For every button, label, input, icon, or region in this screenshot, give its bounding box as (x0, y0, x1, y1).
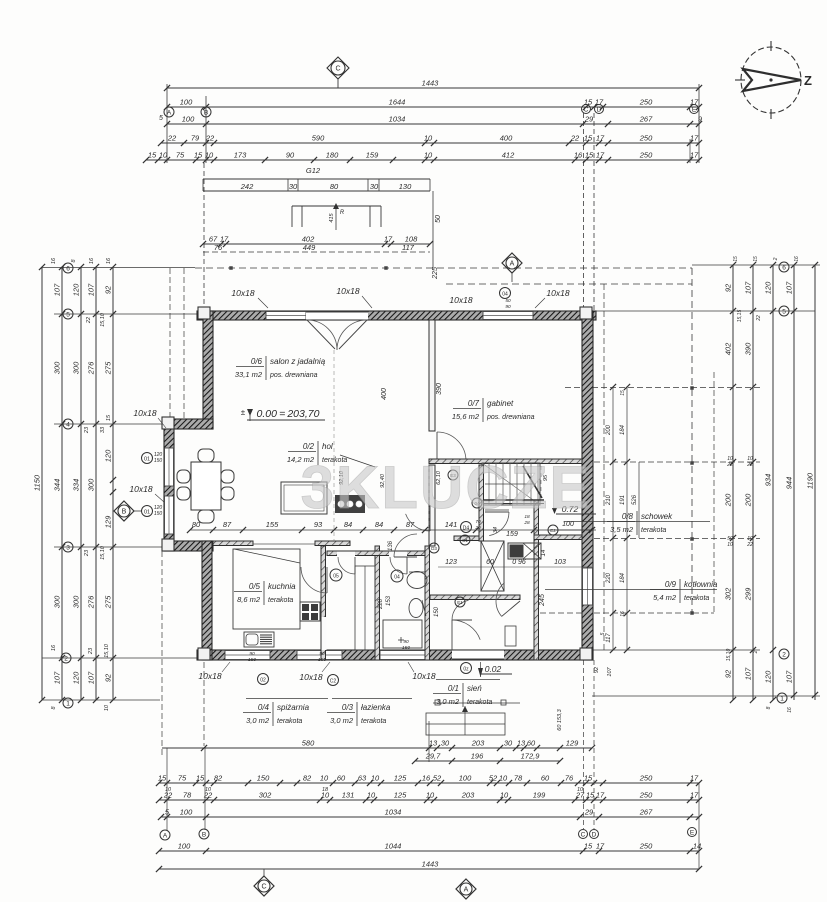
svg-text:0 96: 0 96 (512, 559, 526, 566)
svg-text:944: 944 (785, 477, 794, 490)
svg-text:90: 90 (319, 651, 325, 657)
section marker B left (114, 501, 134, 521)
pantry shelf (355, 566, 375, 650)
stairs enclosure (482, 463, 540, 505)
svg-text:267: 267 (639, 808, 653, 817)
bottom dim row4 (159, 850, 699, 852)
bay wall top horizontal (164, 419, 213, 429)
svg-text:spiżarnia: spiżarnia (277, 703, 310, 712)
svg-text:6: 6 (66, 265, 70, 272)
svg-text:C1: C1 (462, 538, 468, 543)
svg-text:275: 275 (104, 361, 113, 375)
svg-text:225: 225 (432, 267, 439, 280)
porch outline above wall (292, 205, 381, 207)
svg-text:150: 150 (248, 657, 256, 663)
svg-text:92: 92 (104, 673, 113, 682)
svg-text:15,10: 15,10 (100, 312, 106, 327)
svg-text:3KLUCZE: 3KLUCZE (301, 454, 592, 521)
svg-text:87: 87 (223, 520, 232, 529)
svg-text:136: 136 (388, 540, 394, 551)
svg-text:0/8: 0/8 (622, 512, 634, 521)
svg-text:302: 302 (724, 587, 733, 600)
svg-text:A: A (167, 109, 172, 116)
stair landing line (485, 509, 509, 511)
svg-text:0/6: 0/6 (251, 357, 263, 366)
svg-text:16: 16 (620, 611, 626, 617)
right chain 1: 92 402 200 302 92 (732, 265, 734, 700)
svg-text:0.00 = 203,70: 0.00 = 203,70 (257, 408, 320, 420)
svg-text:10: 10 (424, 151, 433, 160)
bottom dim row2 (159, 799, 699, 801)
svg-text:129: 129 (104, 515, 113, 528)
svg-text:79: 79 (191, 134, 200, 143)
svg-text:22: 22 (570, 134, 580, 143)
svg-text:8,6 m2: 8,6 m2 (237, 595, 261, 604)
svg-text:52: 52 (433, 774, 442, 783)
svg-text:C: C (584, 106, 589, 113)
svg-text:10: 10 (371, 774, 380, 783)
pantry-bath top wall (327, 551, 429, 556)
svg-text:10x18: 10x18 (231, 288, 254, 298)
bath door arc (394, 534, 417, 557)
svg-text:22: 22 (746, 542, 753, 548)
svg-text:10: 10 (499, 774, 508, 783)
roof overhang dashed right vertical with squares (691, 268, 693, 613)
svg-text:15: 15 (196, 774, 205, 783)
svg-text:107: 107 (785, 670, 794, 683)
svg-text:449: 449 (303, 243, 316, 252)
chairs right (221, 470, 234, 483)
bath east / sien west wall (425, 546, 430, 660)
svg-text:34: 34 (493, 527, 499, 533)
hol door arc (406, 514, 430, 531)
svg-text:52: 52 (489, 774, 498, 783)
top dim line 4: 22 79 22 590 10 400 22 15 17 250 17 (161, 142, 699, 144)
svg-text:2: 2 (773, 257, 779, 261)
chair bottom (198, 510, 214, 523)
svg-text:400: 400 (500, 134, 513, 143)
svg-text:kuchnia: kuchnia (268, 582, 296, 591)
kitchen door arc (301, 567, 327, 593)
svg-text:15: 15 (585, 151, 594, 160)
svg-text:50: 50 (435, 215, 442, 223)
svg-text:3,0 m2: 3,0 m2 (246, 716, 270, 725)
dashed axis C/D bottom (583, 660, 585, 829)
svg-text:2: 2 (753, 650, 759, 654)
svg-text:60 153,3: 60 153,3 (557, 708, 563, 730)
svg-text:30: 30 (289, 182, 298, 191)
G12 dim box: 242 30 80 30 130 (203, 178, 430, 180)
svg-text:E2: E2 (550, 528, 556, 533)
svg-text:1190: 1190 (806, 472, 815, 489)
svg-text:5: 5 (600, 632, 606, 635)
svg-text:17: 17 (596, 151, 605, 160)
svg-text:30: 30 (441, 739, 450, 748)
svg-text:17: 17 (690, 151, 699, 160)
svg-text:92: 92 (104, 285, 113, 294)
svg-text:60: 60 (486, 559, 494, 566)
svg-text:155: 155 (266, 520, 279, 529)
schowek-kotlownia divider (534, 535, 582, 540)
svg-text:934: 934 (764, 474, 773, 487)
stair stringer (479, 499, 544, 501)
svg-text:10: 10 (577, 787, 584, 793)
svg-text:E: E (692, 106, 697, 113)
svg-text:210: 210 (606, 494, 612, 506)
svg-text:344: 344 (53, 479, 62, 492)
svg-text:C: C (335, 66, 340, 73)
svg-text:159: 159 (366, 151, 379, 160)
corridor door arc (489, 512, 509, 536)
svg-text:15,15: 15,15 (737, 310, 743, 323)
svg-text:terakota: terakota (277, 718, 302, 725)
svg-text:302: 302 (259, 791, 272, 800)
svg-text:84: 84 (375, 520, 383, 529)
sien north wall (430, 595, 520, 600)
svg-text:16: 16 (106, 257, 112, 264)
small circles in corridor (429, 543, 439, 553)
top wall window 10x18 left (266, 312, 306, 320)
sien door arc (452, 620, 480, 640)
svg-text:412: 412 (502, 151, 515, 160)
svg-text:150: 150 (434, 606, 440, 617)
entry steps below sien (426, 713, 505, 735)
svg-text:100: 100 (178, 842, 191, 851)
svg-text:C: C (261, 884, 266, 891)
bottom verticals (166, 748, 168, 830)
top wall door opening salon (306, 312, 368, 320)
svg-text:120: 120 (764, 281, 773, 294)
svg-text:60: 60 (527, 739, 536, 748)
svg-text:63: 63 (358, 774, 367, 783)
svg-text:150: 150 (257, 774, 270, 783)
svg-text:93: 93 (314, 520, 323, 529)
roof dashed horizontals right (565, 387, 760, 389)
bottom wall window kitchen (225, 651, 270, 660)
svg-text:250: 250 (639, 791, 653, 800)
svg-text:200: 200 (724, 493, 733, 507)
svg-text:120: 120 (72, 283, 81, 296)
svg-text:250: 250 (639, 842, 653, 851)
svg-text:R: R (340, 210, 345, 216)
kitchen stove 4 burners (300, 602, 320, 621)
right chain 3: 120 934 120 (772, 265, 774, 700)
svg-text:5: 5 (66, 311, 70, 318)
svg-text:103: 103 (554, 559, 566, 566)
bath washbasin (407, 572, 427, 589)
kitchen east wall (321, 546, 326, 660)
circle D4 on chain (461, 522, 472, 533)
dashed line right of stairs (540, 466, 542, 500)
left chain 5: 92 275 120 129 275 92 (112, 267, 114, 700)
sien wardrobe (505, 626, 516, 646)
top dim line 2: 100 1644 15 17 250 17 (167, 106, 699, 108)
svg-text:10: 10 (320, 774, 329, 783)
svg-text:20: 20 (474, 525, 481, 531)
svg-text:2: 2 (64, 655, 68, 662)
svg-text:2: 2 (782, 651, 786, 658)
svg-text:276: 276 (87, 595, 96, 609)
svg-text:10x18: 10x18 (546, 288, 569, 298)
svg-text:22: 22 (86, 317, 92, 324)
window spec circle 02 bottom1 (258, 674, 269, 685)
svg-text:pos. drewniana: pos. drewniana (269, 372, 318, 379)
svg-text:02: 02 (260, 678, 266, 684)
bottom wall window 3 (380, 651, 425, 660)
svg-text:sień: sień (467, 684, 482, 693)
svg-text:107: 107 (53, 671, 62, 684)
svg-text:220: 220 (606, 572, 612, 584)
svg-text:gabinet: gabinet (487, 399, 514, 408)
svg-text:107: 107 (87, 283, 96, 296)
svg-text:1034: 1034 (389, 115, 406, 124)
svg-text:90: 90 (505, 304, 511, 310)
svg-text:107: 107 (785, 281, 794, 294)
svg-text:153: 153 (386, 595, 392, 606)
svg-text:125: 125 (394, 774, 407, 783)
svg-text:C2: C2 (330, 679, 337, 685)
bottom dim row1 (159, 782, 699, 784)
vertical extension line axis B top (205, 96, 207, 163)
svg-text:150: 150 (154, 511, 163, 517)
roof overhang dashed top line with squares (195, 267, 692, 269)
left dashed verticals above bay (169, 268, 171, 419)
top dim line 1443 (167, 87, 699, 89)
svg-text:E: E (690, 829, 695, 836)
svg-text:10: 10 (104, 704, 110, 711)
svg-text:580: 580 (302, 739, 315, 748)
svg-text:terakota: terakota (641, 527, 666, 534)
wall kitchen north (salon-kitchen divider) (213, 541, 253, 546)
svg-text:15: 15 (194, 151, 203, 160)
svg-text:15: 15 (733, 256, 739, 262)
svg-text:A: A (510, 261, 515, 268)
svg-text:B: B (122, 509, 127, 516)
svg-text:17: 17 (690, 134, 699, 143)
svg-text:267: 267 (639, 115, 653, 124)
window spec circle C2 bottom2 (328, 675, 339, 686)
svg-text:75: 75 (176, 151, 185, 160)
svg-text:10: 10 (500, 791, 509, 800)
svg-text:242: 242 (240, 182, 254, 191)
svg-text:123: 123 (445, 559, 457, 566)
svg-text:0.02: 0.02 (485, 664, 502, 674)
svg-text:0z: 0z (463, 667, 469, 673)
svg-text:196: 196 (471, 752, 484, 761)
svg-text:150: 150 (318, 657, 326, 663)
svg-text:10: 10 (424, 134, 433, 143)
svg-text:kotłownia: kotłownia (684, 580, 718, 589)
svg-text:299: 299 (744, 587, 753, 601)
svg-text:120: 120 (764, 670, 773, 683)
interior dim chain y=530 (190, 529, 592, 531)
svg-text:300: 300 (72, 595, 81, 608)
hol south-east wall piece (429, 465, 435, 546)
svg-text:hol: hol (322, 442, 333, 451)
bay wall bottom horizontal (164, 541, 213, 551)
schowek-kotlownia inner dims (612, 387, 614, 650)
svg-text:60: 60 (337, 774, 346, 783)
svg-text:5: 5 (159, 115, 163, 122)
chimney block with X (481, 541, 504, 591)
stair treads (488, 463, 490, 505)
svg-text:14: 14 (693, 842, 701, 851)
svg-text:130: 130 (399, 182, 412, 191)
elevation mark 0.00 (247, 409, 253, 416)
svg-text:15: 15 (586, 791, 595, 800)
svg-text:16: 16 (51, 644, 57, 651)
svg-text:04: 04 (502, 292, 508, 298)
svg-text:245: 245 (539, 594, 546, 607)
svg-text:15: 15 (620, 390, 626, 396)
svg-text:05: 05 (333, 574, 339, 580)
svg-text:100: 100 (180, 98, 193, 107)
svg-text:1044: 1044 (385, 842, 402, 851)
svg-text:29: 29 (584, 808, 594, 817)
north arrow circle (735, 41, 801, 119)
svg-text:terakota: terakota (361, 718, 386, 725)
svg-text:13: 13 (429, 739, 438, 748)
svg-text:82: 82 (303, 774, 312, 783)
svg-text:17: 17 (690, 791, 699, 800)
svg-text:15: 15 (158, 774, 167, 783)
bath tub (383, 620, 422, 648)
svg-text:100: 100 (182, 115, 195, 124)
svg-text:10x18: 10x18 (129, 484, 152, 494)
svg-text:pos. drewniana: pos. drewniana (486, 414, 535, 421)
svg-text:173: 173 (234, 151, 247, 160)
svg-text:300: 300 (87, 478, 96, 491)
stove block (335, 495, 365, 513)
bath toilet (409, 599, 423, 618)
svg-text:117: 117 (606, 633, 612, 643)
svg-text:10: 10 (727, 542, 733, 548)
svg-text:131: 131 (342, 791, 355, 800)
exterior wall east (582, 311, 593, 660)
svg-text:90: 90 (286, 151, 295, 160)
svg-text:100: 100 (459, 774, 472, 783)
svg-text:80: 80 (330, 182, 339, 191)
svg-text:275: 275 (104, 595, 113, 609)
svg-text:100: 100 (562, 521, 574, 528)
svg-text:1034: 1034 (385, 808, 402, 817)
bottom section marker A (456, 879, 476, 899)
svg-text:228: 228 (378, 598, 384, 610)
svg-text:250: 250 (639, 151, 653, 160)
svg-text:0/5: 0/5 (249, 582, 261, 591)
svg-text:01: 01 (144, 510, 150, 516)
axis circle E top right (690, 105, 699, 114)
left chain 3: 120 300 334 300 120 (80, 267, 82, 700)
right chain 4: 107 944 107 (793, 265, 795, 700)
svg-text:17: 17 (596, 842, 605, 851)
svg-text:Z: Z (804, 73, 812, 88)
svg-text:141: 141 (445, 520, 458, 529)
bottom section marker C (254, 876, 274, 896)
sien inner door arc (496, 583, 505, 617)
svg-text:15,10: 15,10 (100, 545, 106, 560)
svg-text:150: 150 (402, 645, 410, 651)
svg-text:0/9: 0/9 (665, 580, 677, 589)
svg-text:400: 400 (381, 388, 388, 400)
svg-text:390: 390 (744, 342, 753, 355)
svg-text:15: 15 (753, 256, 759, 262)
svg-text:84: 84 (344, 520, 352, 529)
svg-text:590: 590 (312, 134, 325, 143)
svg-text:1644: 1644 (389, 98, 406, 107)
svg-text:203: 203 (461, 791, 475, 800)
svg-text:D: D (592, 831, 597, 838)
svg-text:184: 184 (620, 572, 626, 583)
svg-text:terakota: terakota (684, 595, 709, 602)
svg-text:199: 199 (533, 791, 546, 800)
chairs left (177, 470, 190, 483)
svg-text:schowek: schowek (641, 512, 673, 521)
svg-text:120: 120 (104, 449, 113, 462)
svg-text:334: 334 (72, 479, 81, 492)
svg-text:terakota: terakota (467, 699, 492, 706)
svg-text:15: 15 (584, 842, 593, 851)
svg-text:terakota: terakota (268, 597, 293, 604)
top wall window gabinet 10x18 (483, 312, 533, 320)
svg-text:10: 10 (426, 791, 435, 800)
left chain 4: 107 276 300 276 107 (95, 267, 97, 700)
svg-text:14: 14 (541, 549, 547, 556)
svg-text:04: 04 (394, 575, 400, 581)
svg-text:300: 300 (72, 361, 81, 374)
svg-text:E1: E1 (457, 600, 463, 605)
vertical extension line axis A top (166, 84, 168, 163)
svg-text:15: 15 (584, 774, 593, 783)
svg-text:203: 203 (471, 739, 485, 748)
sien inner arc SW (452, 600, 469, 620)
salon double door arcs (307, 320, 337, 350)
svg-text:10x18: 10x18 (336, 286, 359, 296)
svg-text:1443: 1443 (422, 860, 440, 869)
svg-text:100: 100 (180, 808, 193, 817)
svg-text:23: 23 (84, 426, 90, 434)
svg-text:250: 250 (639, 134, 653, 143)
svg-text:33: 33 (100, 426, 106, 433)
svg-text:3,5 m2: 3,5 m2 (610, 525, 634, 534)
svg-text:0/2: 0/2 (303, 442, 315, 451)
bay window upper (165, 448, 174, 486)
svg-text:10x18: 10x18 (449, 295, 472, 305)
svg-text:01: 01 (144, 457, 150, 463)
svg-text:107: 107 (53, 283, 62, 296)
bay wall west vertical (164, 419, 174, 551)
svg-text:16: 16 (794, 256, 800, 262)
svg-text:16: 16 (89, 257, 95, 264)
svg-text:50: 50 (505, 298, 511, 304)
pantry east wall (375, 546, 380, 660)
door spec circle 04 (391, 570, 403, 582)
top dim line 5: 15 10 75 15 10 173 90 180 159 10 412 16 15 17 250 17 (146, 159, 699, 161)
svg-text:16: 16 (574, 151, 583, 160)
svg-text:23: 23 (84, 549, 90, 557)
wall salon-gabinet (429, 320, 435, 431)
svg-text:92: 92 (724, 283, 733, 292)
right chain 2: 107 390 200 299 107 (752, 265, 754, 700)
svg-text:60: 60 (541, 774, 550, 783)
svg-text:1150: 1150 (33, 474, 42, 491)
svg-text:łazienka: łazienka (361, 703, 391, 712)
svg-text:8: 8 (51, 706, 57, 710)
svg-text:526: 526 (632, 494, 638, 505)
svg-text:0/4: 0/4 (258, 703, 270, 712)
section marker A top (502, 253, 522, 273)
svg-text:300: 300 (53, 595, 62, 608)
